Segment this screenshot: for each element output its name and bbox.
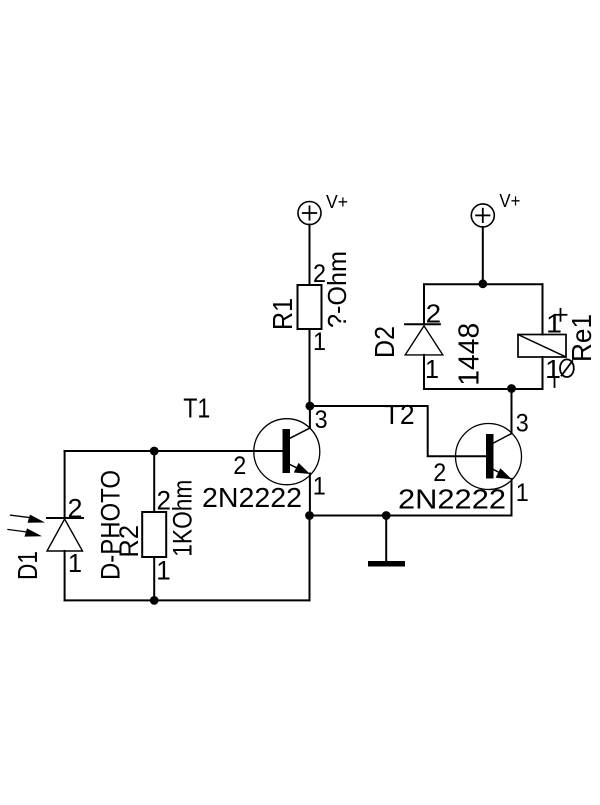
node B T1 emitter bbox=[305, 511, 314, 520]
diode D2 bbox=[369, 284, 486, 389]
wire R1 to node A bbox=[309, 329, 311, 406]
svg-text:1: 1 bbox=[425, 354, 439, 384]
wire emitter rail to T2 bbox=[310, 515, 512, 517]
svg-text:1: 1 bbox=[545, 354, 561, 384]
node C ground tap bbox=[382, 511, 391, 520]
wire T1 emitter down to bottom rail bbox=[309, 516, 311, 601]
wire top rail D2 to relay bbox=[424, 283, 543, 285]
resistor R2 bbox=[114, 451, 198, 600]
svg-text:V+: V+ bbox=[499, 191, 520, 211]
wire node A to T2 base bbox=[310, 406, 486, 456]
transistor T1 bbox=[183, 393, 327, 516]
supply V+ right bbox=[471, 191, 520, 227]
svg-text:2N2222: 2N2222 bbox=[202, 482, 302, 513]
wire V+ right to top rail bbox=[482, 227, 484, 284]
wire V+ left to R1 bbox=[309, 225, 311, 286]
svg-text:?-Ohm: ?-Ohm bbox=[322, 251, 352, 328]
svg-text:V+: V+ bbox=[326, 192, 348, 212]
svg-text:3: 3 bbox=[516, 409, 529, 437]
ground bbox=[368, 516, 405, 567]
node A junction bbox=[306, 402, 315, 411]
svg-text:2N2222: 2N2222 bbox=[398, 484, 506, 515]
svg-text:2: 2 bbox=[68, 494, 83, 524]
relay Re1 bbox=[518, 284, 597, 389]
node R2 top bbox=[150, 447, 159, 456]
svg-text:D1: D1 bbox=[12, 551, 43, 580]
photodiode D1 bbox=[8, 451, 126, 600]
resistor R1 bbox=[267, 251, 352, 356]
svg-text:1: 1 bbox=[68, 548, 82, 578]
svg-text:1: 1 bbox=[156, 556, 171, 586]
svg-text:2: 2 bbox=[233, 452, 246, 480]
svg-text:1KOhm: 1KOhm bbox=[168, 480, 198, 557]
svg-text:T2: T2 bbox=[384, 399, 415, 430]
wire bottom rail D2 to relay bbox=[424, 388, 543, 390]
transistor T2 bbox=[384, 389, 529, 516]
node R2 bottom bbox=[150, 596, 159, 605]
svg-text:D2: D2 bbox=[369, 326, 400, 358]
svg-text:3: 3 bbox=[315, 406, 328, 434]
svg-text:1: 1 bbox=[313, 473, 326, 501]
wire base rail to T1 bbox=[65, 450, 283, 452]
svg-text:Re1: Re1 bbox=[566, 314, 597, 362]
svg-text:2: 2 bbox=[426, 299, 442, 329]
svg-text:T1: T1 bbox=[183, 393, 210, 424]
node V+ right tap bbox=[478, 279, 487, 288]
svg-text:R2: R2 bbox=[114, 525, 144, 558]
node T2 collector tap bbox=[507, 384, 516, 393]
svg-text:1448: 1448 bbox=[454, 323, 486, 386]
wire bottom rail bbox=[65, 599, 310, 601]
svg-text:1: 1 bbox=[516, 479, 529, 507]
svg-text:1: 1 bbox=[313, 328, 326, 356]
svg-text:R1: R1 bbox=[267, 298, 298, 330]
supply V+ left bbox=[298, 192, 348, 225]
